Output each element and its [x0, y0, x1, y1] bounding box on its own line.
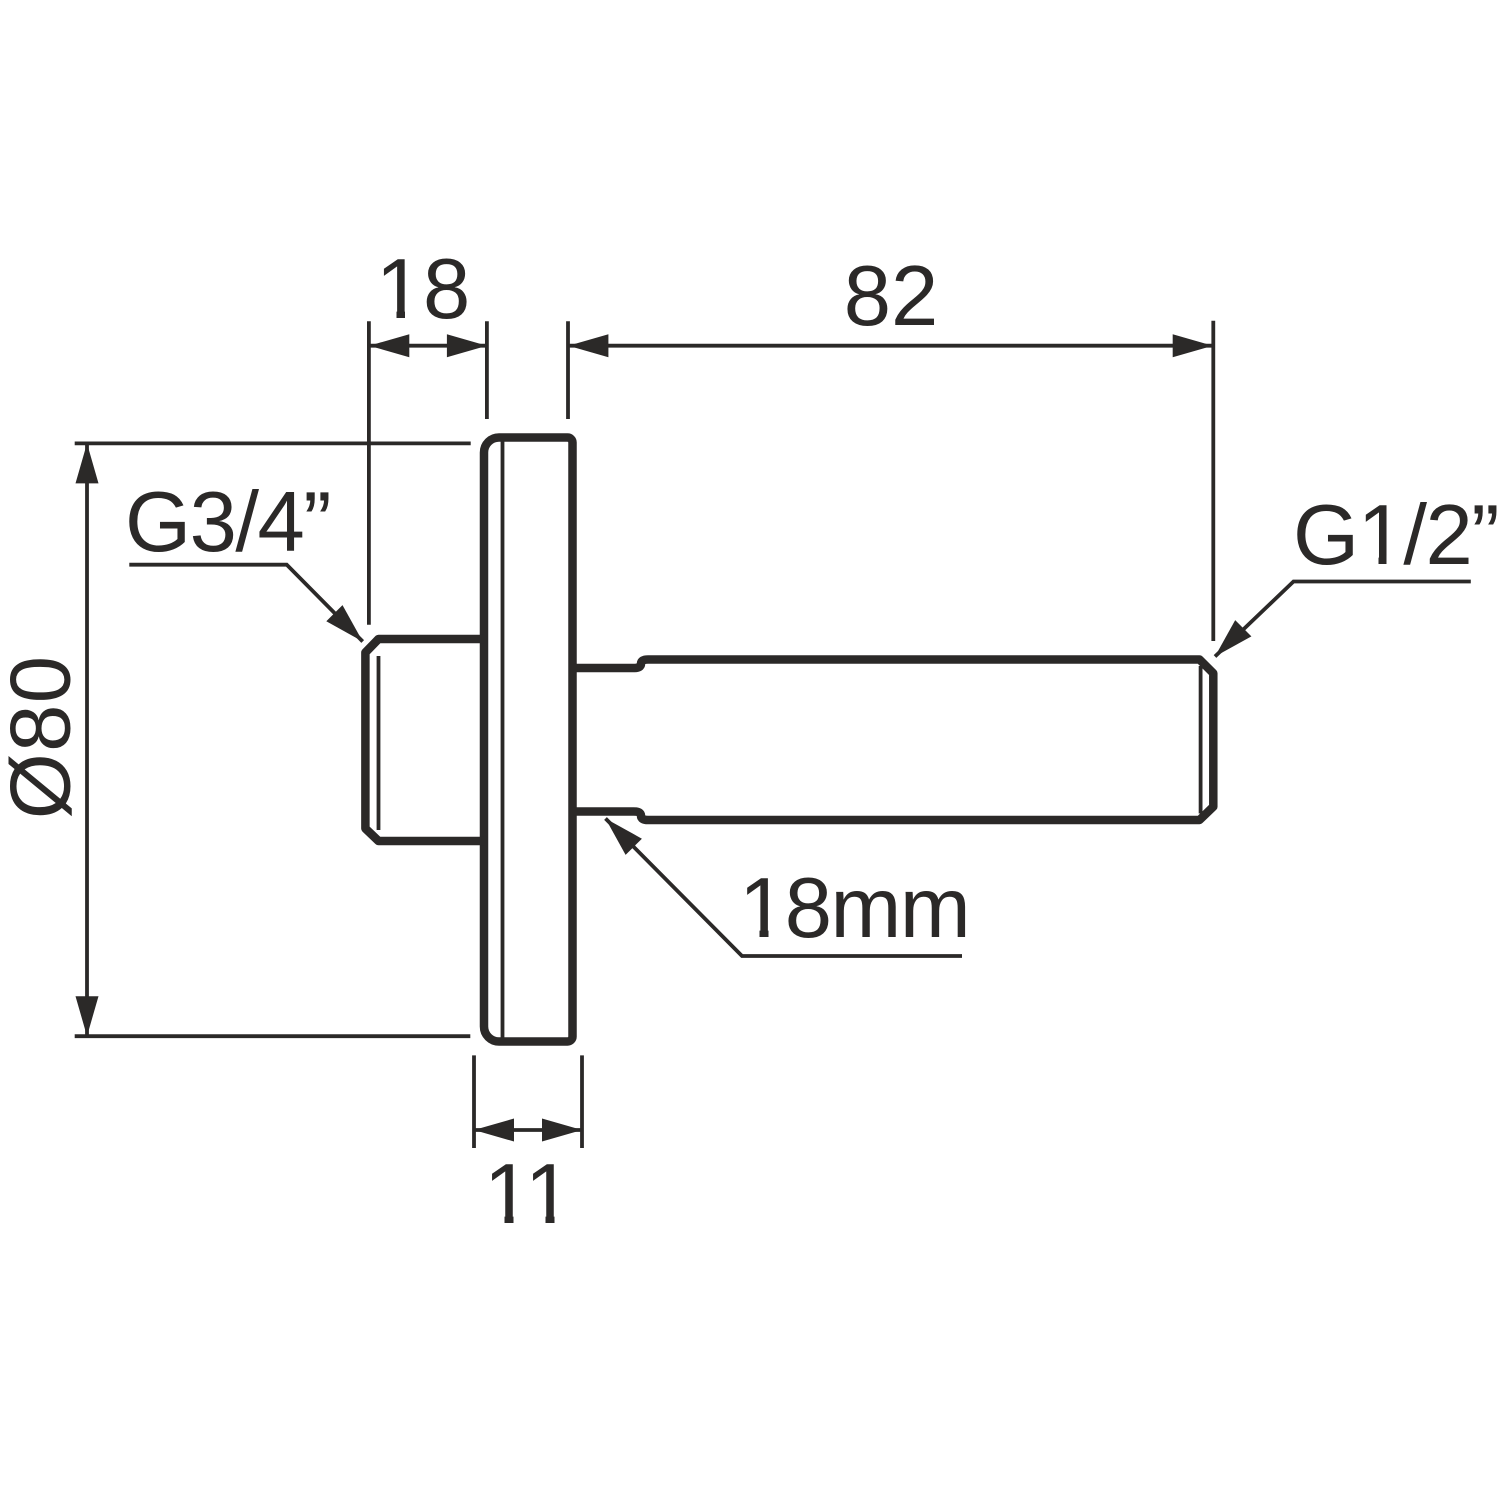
svg-text:18: 18 [376, 242, 471, 337]
svg-text:G3/4”: G3/4” [125, 475, 330, 570]
svg-text:82: 82 [844, 249, 939, 344]
svg-text:18mm: 18mm [739, 861, 969, 956]
svg-text:11: 11 [484, 1147, 572, 1242]
svg-text:Ø80: Ø80 [0, 655, 89, 820]
svg-text:G1/2”: G1/2” [1293, 488, 1498, 583]
